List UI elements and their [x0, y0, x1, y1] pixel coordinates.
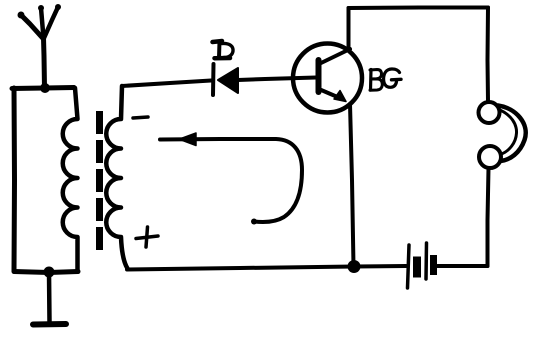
wire: tank bottom edge — [14, 272, 78, 273]
junction dot antenna to tank top — [40, 83, 50, 93]
wire: tank left edge — [12, 88, 18, 271]
diode D — [213, 64, 238, 95]
wire: right side down to earphone — [486, 8, 491, 102]
earphone — [479, 102, 526, 168]
label plus polarity — [136, 227, 158, 247]
ground — [33, 272, 66, 325]
wire: earphone to bottom rail — [488, 168, 489, 266]
wire: secondary top to diode — [122, 81, 211, 87]
junction dot emitter to rail — [348, 260, 361, 273]
wire: emitter down to bottom rail — [350, 104, 354, 266]
wire: bottom rail from secondary to emitter junction — [127, 267, 354, 270]
wire: bottom rail from emitter junction to battery — [354, 264, 406, 269]
label BG — [370, 69, 401, 90]
wire: top rail — [349, 6, 489, 11]
antenna — [18, 4, 62, 88]
transformer core (dashed) — [96, 111, 103, 250]
wire: tank top edge — [12, 88, 74, 89]
wire: diode to transistor base — [238, 78, 316, 81]
feedback current arrow — [160, 133, 302, 225]
wire: collector up to top rail — [347, 8, 351, 49]
junction dot tank bottom to ground — [44, 267, 55, 278]
transistor BG — [293, 44, 362, 113]
inductor L2 secondary coil — [106, 86, 127, 269]
label minus polarity — [133, 117, 148, 118]
wire: bottom rail from battery right to right side — [438, 264, 488, 268]
inductor L1 antenna coil — [63, 88, 78, 271]
label D — [213, 41, 234, 58]
battery B — [408, 243, 438, 288]
